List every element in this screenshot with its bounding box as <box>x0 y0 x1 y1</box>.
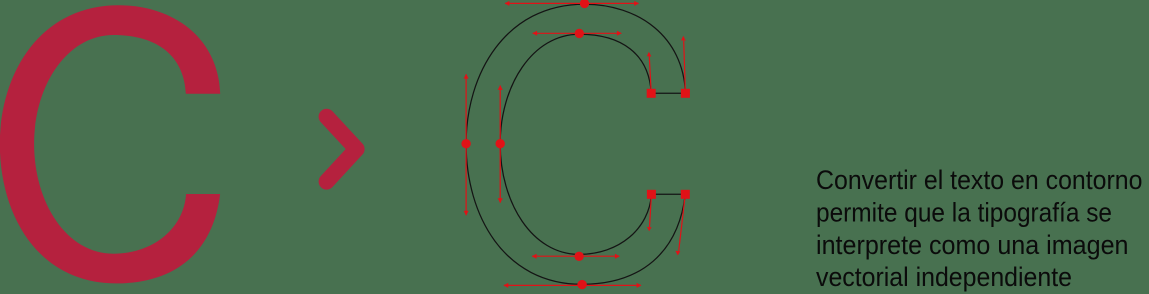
svg-text:vectorial independiente: vectorial independiente <box>816 262 1072 292</box>
svg-text:permite que la tipografía se: permite que la tipografía se <box>816 198 1112 228</box>
svg-text:interprete como una imagen: interprete como una imagen <box>816 230 1129 260</box>
svg-text:Convertir el texto en contorno: Convertir el texto en contorno <box>816 165 1143 195</box>
